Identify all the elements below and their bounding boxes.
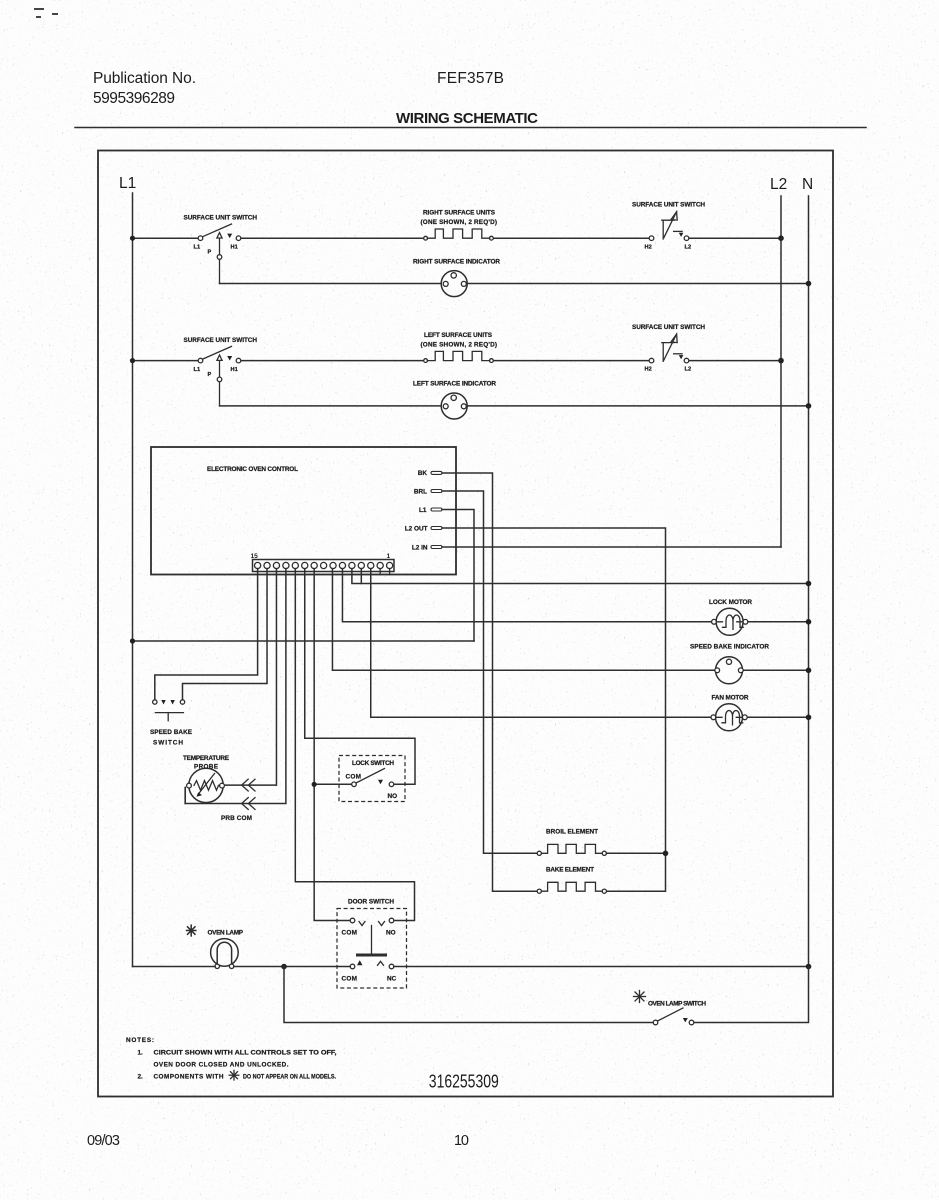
svg-text:BROIL ELEMENT: BROIL ELEMENT xyxy=(546,829,598,836)
svg-text:316255309: 316255309 xyxy=(429,1072,499,1092)
svg-text:RIGHT SURFACE INDICATOR: RIGHT SURFACE INDICATOR xyxy=(413,258,500,265)
svg-text:COM: COM xyxy=(346,774,362,781)
svg-text:15: 15 xyxy=(251,553,259,560)
svg-text:BAKE ELEMENT: BAKE ELEMENT xyxy=(546,867,594,874)
svg-text:COMPONENTS WITH: COMPONENTS WITH xyxy=(154,1074,224,1081)
svg-text:SURFACE UNIT SWITCH: SURFACE UNIT SWITCH xyxy=(632,324,705,331)
svg-text:L1: L1 xyxy=(119,175,136,192)
svg-text:L2: L2 xyxy=(685,244,692,250)
svg-text:SPEED BAKE INDICATOR: SPEED BAKE INDICATOR xyxy=(690,644,769,651)
svg-text:10: 10 xyxy=(454,1133,469,1149)
svg-text:NO: NO xyxy=(386,930,396,937)
svg-text:09/03: 09/03 xyxy=(87,1133,120,1149)
svg-text:Publication No.: Publication No. xyxy=(93,70,196,87)
svg-text:SPEED BAKE: SPEED BAKE xyxy=(150,729,193,736)
svg-text:FAN MOTOR: FAN MOTOR xyxy=(712,694,749,701)
svg-text:SURFACE UNIT SWITCH: SURFACE UNIT SWITCH xyxy=(632,202,705,209)
svg-text:OVEN LAMP SWITCH: OVEN LAMP SWITCH xyxy=(648,1001,706,1008)
svg-text:NC: NC xyxy=(387,976,397,983)
svg-text:H1: H1 xyxy=(231,245,238,251)
svg-text:OVEN LAMP: OVEN LAMP xyxy=(208,929,244,936)
svg-text:LOCK MOTOR: LOCK MOTOR xyxy=(709,599,752,606)
svg-text:SURFACE UNIT SWITCH: SURFACE UNIT SWITCH xyxy=(184,337,258,344)
svg-text:NO: NO xyxy=(388,793,398,800)
svg-text:L1: L1 xyxy=(419,507,427,514)
svg-text:DOOR SWITCH: DOOR SWITCH xyxy=(348,899,394,906)
svg-text:BK: BK xyxy=(418,470,428,477)
svg-text:FEF357B: FEF357B xyxy=(437,70,504,87)
svg-text:L2: L2 xyxy=(770,176,787,193)
svg-text:N: N xyxy=(802,176,813,193)
svg-text:H2: H2 xyxy=(645,244,652,250)
svg-text:LEFT SURFACE UNITS: LEFT SURFACE UNITS xyxy=(424,332,493,339)
svg-text:SURFACE UNIT SWITCH: SURFACE UNIT SWITCH xyxy=(184,215,258,222)
svg-text:1: 1 xyxy=(387,553,391,560)
svg-text:RIGHT SURFACE UNITS: RIGHT SURFACE UNITS xyxy=(423,210,496,217)
svg-text:LOCK SWITCH: LOCK SWITCH xyxy=(352,760,394,767)
svg-text:DO NOT APPEAR ON ALL MODELS.: DO NOT APPEAR ON ALL MODELS. xyxy=(243,1074,336,1081)
svg-text:(ONE SHOWN, 2 REQ'D): (ONE SHOWN, 2 REQ'D) xyxy=(421,341,498,348)
svg-text:LEFT SURFACE INDICATOR: LEFT SURFACE INDICATOR xyxy=(413,381,496,388)
svg-text:5995396289: 5995396289 xyxy=(93,90,175,107)
svg-text:TEMPERATURE: TEMPERATURE xyxy=(183,755,230,762)
svg-text:COM: COM xyxy=(342,930,358,937)
svg-text:2.: 2. xyxy=(138,1074,144,1081)
svg-text:L1: L1 xyxy=(194,245,201,251)
svg-text:ELECTRONIC OVEN CONTROL: ELECTRONIC OVEN CONTROL xyxy=(207,466,298,473)
svg-text:P: P xyxy=(208,250,212,256)
svg-text:L2 IN: L2 IN xyxy=(412,545,428,552)
svg-text:CIRCUIT SHOWN WITH ALL CONTROL: CIRCUIT SHOWN WITH ALL CONTROLS SET TO O… xyxy=(154,1049,337,1056)
svg-text:(ONE SHOWN, 2 REQ'D): (ONE SHOWN, 2 REQ'D) xyxy=(421,219,498,226)
svg-text:SWITCH: SWITCH xyxy=(153,740,183,747)
svg-text:L2 OUT: L2 OUT xyxy=(405,526,428,533)
svg-text:1.: 1. xyxy=(138,1049,144,1056)
svg-text:PRB COM: PRB COM xyxy=(221,815,252,822)
svg-text:NOTES:: NOTES: xyxy=(126,1037,154,1044)
svg-text:OVEN DOOR CLOSED AND UNLOCKED.: OVEN DOOR CLOSED AND UNLOCKED. xyxy=(154,1062,289,1069)
svg-text:BRL: BRL xyxy=(414,489,427,496)
svg-text:COM: COM xyxy=(342,976,358,983)
svg-text:WIRING SCHEMATIC: WIRING SCHEMATIC xyxy=(396,110,538,127)
